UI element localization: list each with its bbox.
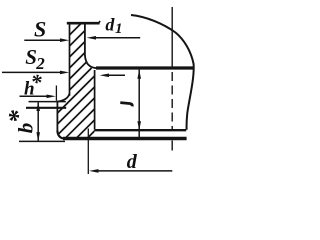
flange top surface thick line — [96, 66, 194, 69]
flange edge vertical line upper solid — [171, 7, 173, 67]
dimension d1 leader with arrow — [87, 36, 141, 40]
svg-text:d: d — [127, 151, 138, 173]
pipe top end cap line — [67, 22, 100, 25]
label b asterisk rotated — [3, 109, 37, 133]
collar left face — [56, 101, 58, 132]
svg-text:b: b — [14, 123, 38, 134]
pipe wall left edge — [69, 23, 71, 96]
bead right face — [94, 70, 96, 130]
bead seam line upper — [29, 101, 66, 103]
dimension h leader with arrow — [20, 95, 56, 99]
svg-text:S: S — [34, 17, 46, 42]
flange plate bottom thick line — [63, 137, 187, 140]
extension line for d — [87, 129, 89, 175]
dimension d leader with arrow — [89, 169, 172, 173]
svg-text:*: * — [31, 70, 43, 95]
flange hidden edge dashed line — [171, 72, 173, 130]
collar face extension line — [55, 86, 57, 101]
svg-text:*: * — [3, 109, 32, 123]
bead seam line lower — [26, 107, 66, 109]
dimension S2 counterpart arrow — [100, 74, 125, 78]
collar bottom round corner — [57, 131, 64, 139]
pipe wall right edge with fillet into flange surface — [85, 23, 98, 68]
b bottom extension line — [19, 140, 65, 142]
svg-text:d: d — [105, 15, 115, 35]
pipe top cap end hook — [98, 21, 100, 24]
label l rotated — [120, 103, 132, 107]
dimension S leader with arrow — [24, 38, 69, 42]
flange edge line lower stub — [171, 141, 173, 151]
dimension b vertical double arrow — [36, 102, 40, 141]
dimension S2 leader with arrow — [2, 71, 69, 75]
dimension l vertical double arrow — [137, 70, 141, 137]
collar top curve from pipe wall — [59, 94, 70, 102]
flange plate top line — [95, 129, 187, 131]
loose flange outer curved edge — [131, 15, 194, 130]
svg-text:1: 1 — [115, 21, 123, 37]
hatched section of pipe wall and end bead — [0, 15, 211, 145]
